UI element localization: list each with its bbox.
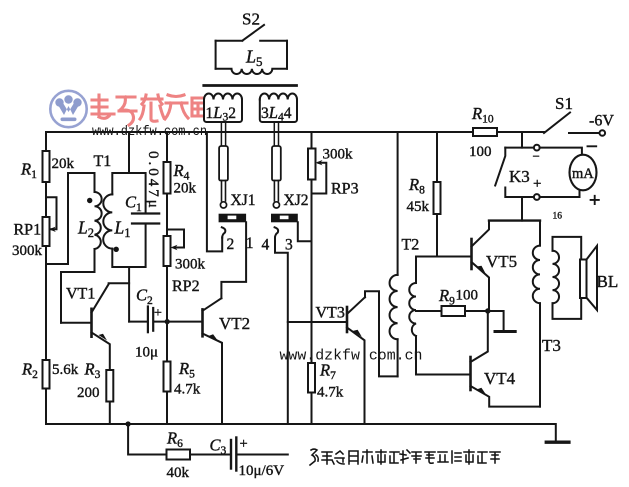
svg-text:+: + [240,436,248,452]
watermark logo circle [50,91,86,127]
wire L2 to rail [46,263,68,265]
speaker BL [580,260,587,299]
inductor L5 [216,69,287,74]
wire RP2 to R5 [166,266,168,362]
relay K3 arm [495,148,505,186]
wire R8 riser [436,132,438,182]
svg-text:RP3: RP3 [331,181,359,198]
contact hook pin2 [222,227,226,237]
transistor VT3 [288,291,398,424]
svg-text:XJ1: XJ1 [231,192,256,209]
switch S1 [544,113,570,134]
svg-text:R10: R10 [471,104,494,126]
wire R8 to base line [436,214,438,257]
plug XJ2 shaft [274,122,278,146]
plug XJ2 tip [274,181,278,202]
svg-text:mA: mA [572,166,594,182]
svg-text:5.6k: 5.6k [52,362,79,378]
wire T2 primary riser [397,132,399,376]
svg-text:S2: S2 [242,10,260,29]
resistor R7 [308,363,315,393]
plug XJ1 shaft [221,122,225,146]
inductor L2 arcs [95,192,102,249]
transistor VT1 [61,283,129,370]
wire VT5 base line [416,256,472,258]
svg-text:R1: R1 [20,160,37,182]
wire pin1 to VT2 collector [221,222,246,298]
caption text (Chinese stroke approximation) [310,449,500,465]
potentiometer RP1 [43,217,50,246]
wire C3 return [238,454,288,456]
wire L5 loop sides [216,41,287,69]
svg-text:VT3: VT3 [316,305,345,322]
svg-text:VT4: VT4 [484,369,516,388]
svg-text:3L44: 3L44 [261,103,292,124]
svg-text:100: 100 [469,144,492,160]
svg-text:R6: R6 [166,429,183,451]
svg-text:VT1: VT1 [66,286,95,303]
svg-text:R8: R8 [408,175,425,197]
svg-text:0.047μ: 0.047μ [145,151,161,211]
wire R4 to RP2 [166,194,168,237]
wire pin4 down [275,238,288,424]
plug XJ1 tip [222,181,226,202]
svg-text:C2: C2 [136,286,153,308]
relay contact K3 upper [505,147,534,149]
svg-text:+: + [154,306,162,321]
resistor R4 [164,162,171,194]
potentiometer RP3 [308,149,316,180]
svg-text:R4: R4 [173,161,190,183]
svg-text:200: 200 [77,385,100,401]
svg-text:100: 100 [456,288,479,304]
wire R4 riser [166,132,168,162]
wire T2 secondary top [416,257,471,375]
transistor VT5 [472,221,490,309]
watermark red title 电子开发网 (stroke approximation) [92,95,205,125]
svg-text:1L32: 1L32 [206,103,236,124]
meter minus sign [588,145,597,147]
svg-text:R3: R3 [84,360,101,382]
ground main [555,424,557,441]
svg-text:20k: 20k [174,181,197,197]
wire meter plus lead [540,191,580,198]
wire output node to ground [488,311,504,331]
svg-text:L1: L1 [114,218,131,241]
wire K3 lower to output bar [521,197,523,221]
svg-text:C1: C1 [125,193,142,215]
transformer T1 winding L2 frame [61,173,95,323]
resistor R9 [442,306,466,316]
core line [204,84,297,87]
svg-text:S1: S1 [555,94,573,113]
svg-text:RP2: RP2 [172,278,200,295]
capacitor C2 [147,307,149,333]
potentiometer RP2 [164,236,171,266]
inductor L1 arcs [103,194,112,248]
svg-text:3: 3 [285,237,293,254]
jack socket XJ1 [219,214,247,223]
svg-text:-6V: -6V [589,113,614,130]
svg-text:R2: R2 [21,360,38,382]
svg-text:4.7k: 4.7k [317,385,344,401]
svg-text:XJ2: XJ2 [284,192,309,209]
svg-text:300k: 300k [323,147,354,163]
transformer T3 secondary arcs [553,251,560,303]
transformer T1 winding L1 frame [112,173,145,267]
svg-text:40k: 40k [167,465,190,481]
resistor R10 [473,128,497,136]
svg-text:45k: 45k [407,199,430,215]
svg-text:4.7k: 4.7k [174,382,201,398]
wire pin3 to RP3 line [298,222,312,241]
svg-text:BL: BL [597,272,619,291]
transformer T3 primary arcs [533,246,540,304]
RP3 wiper [312,163,327,194]
wire T3 primary top [539,221,541,407]
svg-text:1: 1 [246,235,254,252]
watermark logo W mark [55,95,81,121]
contact hook pin4 [275,227,279,237]
node junction dot rail/R6 [126,421,131,426]
wire rail to R6 branch [128,424,166,455]
plug XJ1 body [219,146,228,181]
svg-text:T1: T1 [94,153,112,170]
svg-text:L5: L5 [245,47,263,70]
svg-text:10μ/6V: 10μ/6V [239,463,285,479]
svg-text:www.dzkfw.com.cn: www.dzkfw.com.cn [280,349,423,365]
transformer T2 secondary arcs [409,283,416,336]
resistor R6 [167,450,191,460]
svg-text:4: 4 [262,237,270,254]
RP1 wiper [46,197,57,229]
svg-text:R5: R5 [178,359,195,381]
resistor R1 [43,151,50,182]
relay contact K3 lower [505,188,534,198]
svg-text:C3: C3 [210,436,227,458]
svg-text:10μ: 10μ [135,345,158,361]
wire bottom rail [46,423,556,425]
ground small [495,330,515,333]
wire L1 bottom to C2 node [128,267,130,322]
resistor R8 [434,182,441,214]
transformer T2 primary arcs [390,275,398,339]
svg-text:20k: 20k [52,156,75,172]
svg-text:T3: T3 [542,336,561,355]
wire pin2 to bus feed [207,132,222,251]
transistor VT2 [203,298,223,424]
wire R6 to C3 [190,454,230,456]
svg-text:2: 2 [227,236,235,253]
wire VT5 collector bar [489,219,540,221]
svg-text:L2: L2 [77,218,94,241]
capacitor C1 [132,212,159,214]
wire R9 leads [416,310,488,312]
svg-text:R9: R9 [438,286,455,308]
jack socket XJ2 [271,214,298,223]
wire T1 riser [128,132,130,173]
inductor L3 box [204,94,242,123]
transistor VT4 [471,314,541,407]
svg-text:VT2: VT2 [219,314,250,333]
wire R3 to rail [109,402,111,425]
wire RP3 column [311,132,313,424]
node junction dot output [485,308,490,313]
svg-text:+: + [533,176,541,192]
inductor L4 box [260,94,297,123]
wire R5 to rail [166,392,168,425]
capacitor C3 [230,440,232,469]
svg-text:K3: K3 [509,167,530,186]
node junction dot C2/RP2 [165,319,170,324]
resistor R2 [43,360,50,389]
switch S2 [216,25,287,41]
svg-text:RP1: RP1 [14,222,42,239]
node L1 phase dot [114,247,119,252]
svg-text:16: 16 [553,212,563,222]
resistor R5 [164,362,171,392]
svg-text:300k: 300k [12,243,43,259]
svg-text:VT5: VT5 [486,252,517,271]
svg-text:300k: 300k [175,257,206,273]
wire left rail [45,132,47,424]
svg-text:−: − [533,149,540,164]
svg-text:T2: T2 [402,237,420,254]
resistor R3 [106,370,113,402]
meter plus sign [591,196,599,204]
wire top bus [46,131,544,133]
transformer T3 secondary frame [553,237,582,319]
node L2 phase dot [87,198,92,203]
wire C2 base line [129,321,202,323]
meter mA [570,155,597,191]
wire K3 feed [521,132,523,148]
wire meter minus lead [540,148,582,155]
RP2 wiper [167,230,184,248]
plug XJ2 body [272,146,281,181]
